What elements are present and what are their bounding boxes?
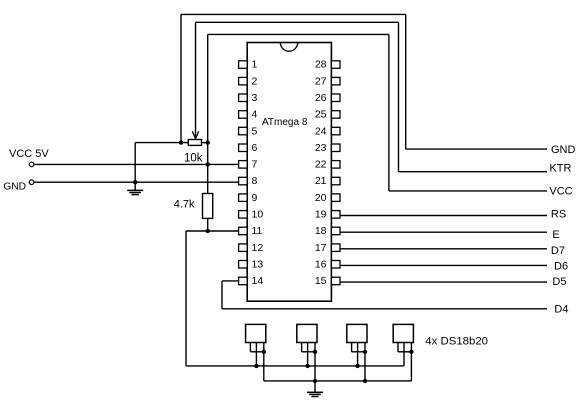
svg-text:4: 4: [252, 109, 258, 121]
svg-text:20: 20: [315, 192, 327, 204]
svg-text:VCC: VCC: [549, 185, 572, 197]
svg-text:KTR: KTR: [549, 163, 571, 175]
svg-text:9: 9: [252, 192, 258, 204]
svg-text:RS: RS: [551, 209, 566, 221]
svg-text:11: 11: [252, 225, 263, 237]
svg-text:28: 28: [315, 59, 327, 71]
svg-text:15: 15: [315, 275, 327, 287]
svg-text:13: 13: [252, 259, 264, 271]
svg-text:2: 2: [252, 75, 258, 87]
svg-text:10: 10: [252, 209, 264, 221]
svg-text:1: 1: [252, 59, 258, 71]
svg-text:GND: GND: [551, 144, 576, 156]
svg-text:18: 18: [315, 225, 327, 237]
svg-text:19: 19: [315, 209, 327, 221]
svg-text:E: E: [552, 229, 559, 241]
svg-text:D6: D6: [554, 260, 568, 272]
svg-text:7: 7: [252, 159, 258, 171]
svg-text:24: 24: [315, 125, 327, 137]
svg-text:26: 26: [315, 92, 327, 104]
svg-text:12: 12: [252, 242, 264, 254]
svg-text:4x DS18b20: 4x DS18b20: [425, 335, 488, 347]
svg-text:16: 16: [315, 259, 327, 271]
svg-text:10k: 10k: [184, 153, 203, 165]
svg-text:25: 25: [315, 109, 327, 121]
svg-text:22: 22: [315, 159, 327, 171]
svg-text:17: 17: [315, 242, 327, 254]
svg-text:23: 23: [315, 142, 327, 154]
svg-text:6: 6: [252, 142, 258, 154]
svg-text:ATmega 8: ATmega 8: [262, 117, 308, 128]
svg-text:3: 3: [252, 92, 258, 104]
svg-text:D4: D4: [554, 303, 568, 315]
svg-text:VCC 5V: VCC 5V: [9, 148, 49, 160]
svg-text:5: 5: [252, 125, 258, 137]
svg-text:GND: GND: [3, 181, 26, 192]
svg-text:14: 14: [252, 275, 264, 287]
svg-text:27: 27: [315, 75, 327, 87]
svg-text:4.7k: 4.7k: [174, 199, 195, 211]
svg-text:D7: D7: [551, 245, 565, 257]
svg-text:D5: D5: [552, 276, 566, 288]
svg-text:21: 21: [315, 175, 327, 187]
svg-text:8: 8: [252, 175, 258, 187]
